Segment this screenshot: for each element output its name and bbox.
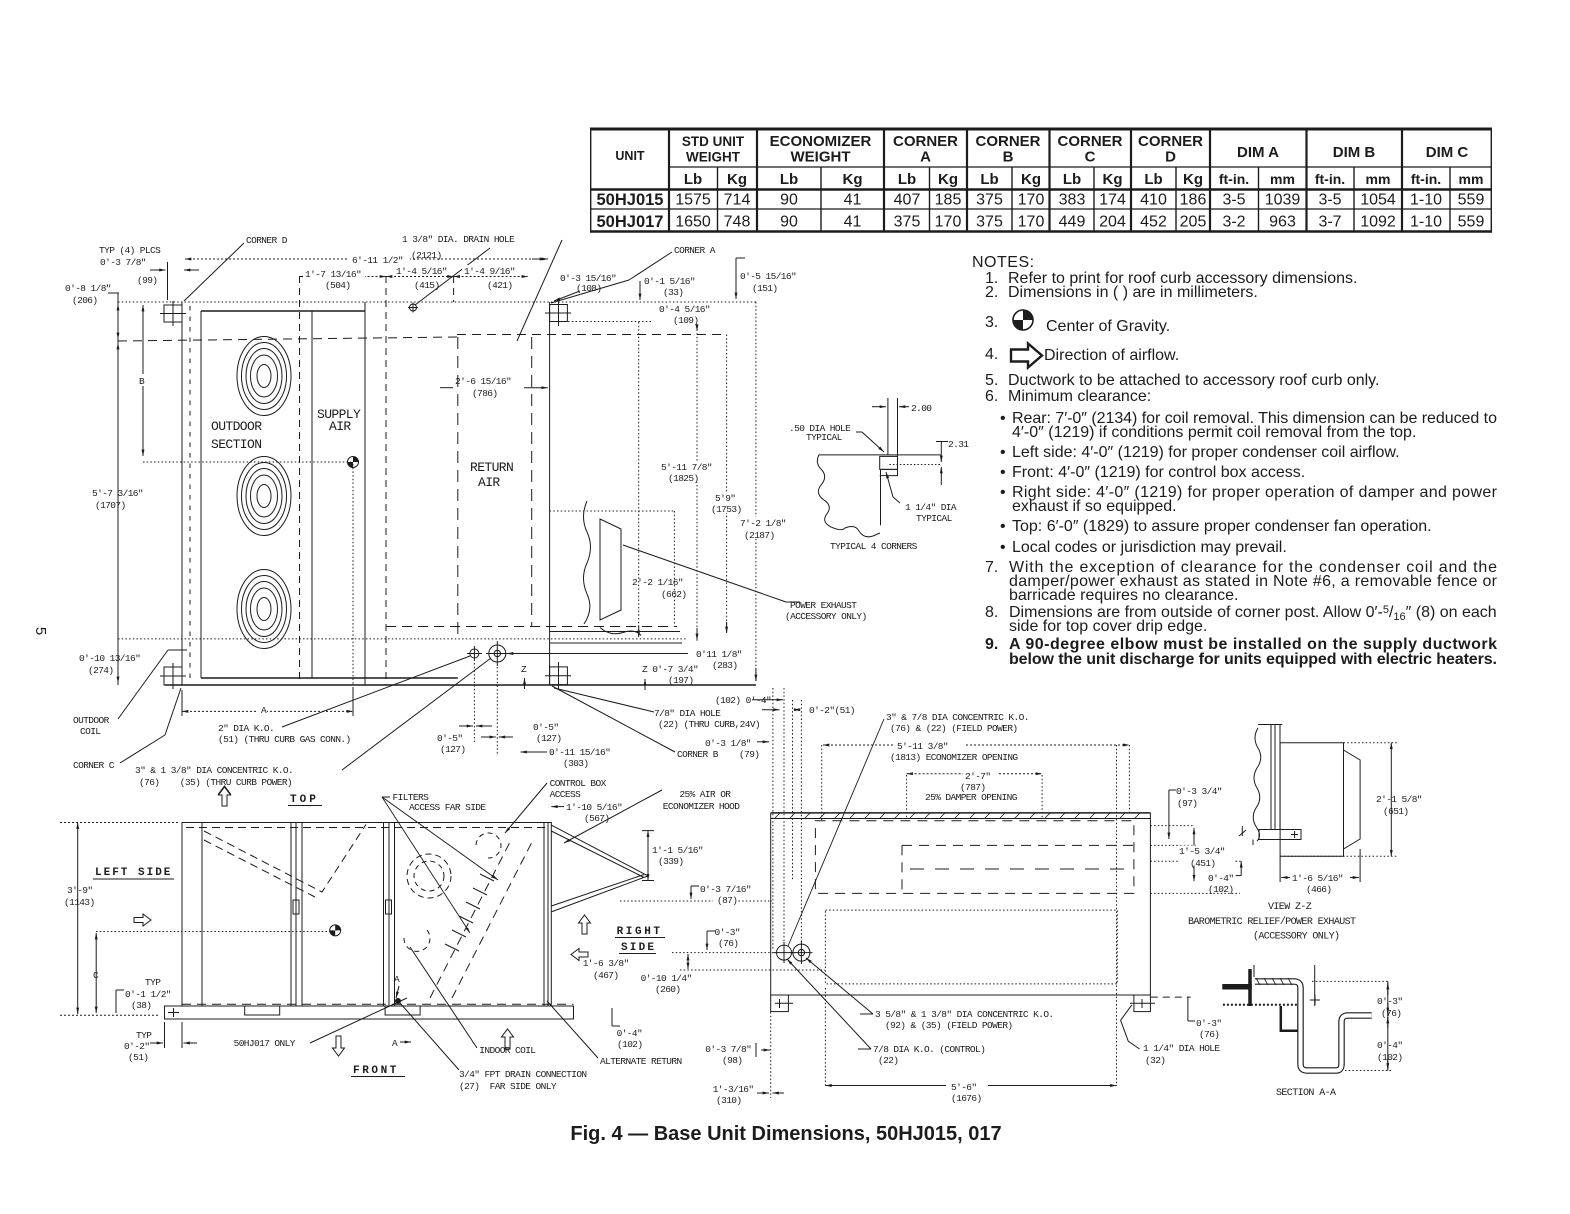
svg-text:0'-1 1/2": 0'-1 1/2": [125, 989, 171, 1000]
svg-text:(22) (THRU CURB,24V): (22) (THRU CURB,24V): [658, 719, 760, 730]
svg-text:ACCESS: ACCESS: [550, 789, 582, 800]
svg-text:CORNER: CORNER: [1138, 133, 1203, 150]
svg-text:375: 375: [976, 192, 1003, 209]
svg-text:2'-2 1/16": 2'-2 1/16": [632, 577, 683, 588]
svg-text:205: 205: [1180, 214, 1207, 231]
svg-text:2" DIA K.O.: 2" DIA K.O.: [218, 723, 274, 734]
svg-text:0'-3 7/16": 0'-3 7/16": [700, 884, 751, 895]
svg-text:963: 963: [1269, 214, 1296, 231]
svg-text:(303): (303): [563, 758, 589, 769]
svg-text:DIM B: DIM B: [1333, 144, 1376, 161]
svg-text:(ACCESSORY ONLY): (ACCESSORY ONLY): [1253, 931, 1339, 943]
svg-text:(1813) ECONOMIZER OPENING: (1813) ECONOMIZER OPENING: [890, 752, 1018, 763]
svg-text:(466): (466): [1306, 884, 1332, 895]
svg-text:SECTION: SECTION: [211, 437, 261, 452]
svg-text:BAROMETRIC RELIEF/POWER EXHAUS: BAROMETRIC RELIEF/POWER EXHAUST: [1188, 916, 1356, 928]
svg-text:Fig. 4 — Base Unit Dimensions,: Fig. 4 — Base Unit Dimensions, 50HJ015, …: [570, 1123, 1001, 1145]
svg-text:(76) & (22) (FIELD POWER): (76) & (22) (FIELD POWER): [890, 723, 1018, 734]
svg-text:(662): (662): [661, 589, 687, 600]
svg-text:1'-4 9/16": 1'-4 9/16": [464, 266, 515, 277]
svg-text:3-2: 3-2: [1222, 214, 1245, 231]
svg-text:0'-4": 0'-4": [1377, 1040, 1403, 1051]
svg-text:CORNER C: CORNER C: [73, 760, 115, 771]
svg-text:(102): (102): [1208, 884, 1234, 895]
svg-text:0'-3 7/8": 0'-3 7/8": [705, 1044, 751, 1055]
svg-text:(99): (99): [137, 275, 157, 286]
svg-text:ECONOMIZER HOOD: ECONOMIZER HOOD: [663, 801, 740, 812]
svg-text:(127): (127): [536, 733, 562, 744]
svg-text:CORNER A: CORNER A: [674, 245, 716, 256]
svg-text:(97): (97): [1177, 798, 1197, 809]
svg-text:STD UNIT: STD UNIT: [682, 134, 745, 149]
svg-text:•: •: [1000, 518, 1006, 535]
svg-text:(651): (651): [1383, 806, 1409, 817]
svg-text:5: 5: [32, 627, 49, 635]
svg-text:(51) (THRU CURB GAS CONN.): (51) (THRU CURB GAS CONN.): [218, 734, 351, 745]
svg-text:3 5/8" & 1 3/8" DIA CONCENTRIC: 3 5/8" & 1 3/8" DIA CONCENTRIC K.O.: [875, 1009, 1054, 1020]
svg-text:2'-7": 2'-7": [965, 771, 991, 782]
svg-text:0'-5": 0'-5": [437, 733, 463, 744]
svg-text:170: 170: [935, 214, 962, 231]
svg-text:2.: 2.: [985, 284, 998, 301]
svg-text:407: 407: [894, 192, 921, 209]
svg-text:3/4" FPT DRAIN CONNECTION: 3/4" FPT DRAIN CONNECTION: [459, 1069, 587, 1080]
svg-text:(51): (51): [128, 1052, 148, 1063]
svg-text:5'-7 3/16": 5'-7 3/16": [92, 488, 143, 499]
svg-text:3-7: 3-7: [1318, 214, 1341, 231]
svg-text:Kg: Kg: [1021, 171, 1041, 188]
svg-text:DIM A: DIM A: [1237, 144, 1279, 161]
svg-text:(786): (786): [472, 388, 498, 399]
svg-text:(32): (32): [1145, 1055, 1165, 1066]
svg-text:mm: mm: [1459, 171, 1484, 187]
svg-text:D: D: [1165, 149, 1176, 166]
svg-text:AIR: AIR: [478, 475, 500, 490]
svg-text:ft-in.: ft-in.: [1219, 171, 1249, 187]
svg-text:(87): (87): [717, 895, 737, 906]
svg-text:AIR: AIR: [329, 419, 351, 434]
svg-text:50HJ017 ONLY: 50HJ017 ONLY: [234, 1038, 296, 1049]
svg-text:Lb: Lb: [980, 171, 998, 188]
svg-text:(127): (127): [440, 744, 466, 755]
svg-text:side for top cover drip edge.: side for top cover drip edge.: [1009, 618, 1207, 635]
svg-text:0'-2"(51): 0'-2"(51): [809, 705, 855, 716]
svg-text:CONTROL BOX: CONTROL BOX: [550, 778, 607, 789]
svg-text:(467): (467): [593, 970, 619, 981]
svg-text:Dimensions in ( ) are in milli: Dimensions in ( ) are in millimeters.: [1008, 284, 1258, 301]
svg-text:(102): (102): [617, 1039, 643, 1050]
svg-text:90: 90: [780, 214, 798, 231]
svg-text:OUTDOOR: OUTDOOR: [73, 715, 110, 726]
svg-text:(98): (98): [722, 1055, 742, 1066]
svg-text:(567): (567): [584, 813, 610, 824]
svg-text:COIL: COIL: [80, 726, 101, 737]
svg-text:204: 204: [1099, 214, 1126, 231]
svg-text:Kg: Kg: [727, 171, 747, 188]
svg-text:170: 170: [1018, 214, 1045, 231]
svg-text:5'9": 5'9": [715, 493, 735, 504]
svg-text:•: •: [1000, 464, 1006, 481]
svg-text:(197): (197): [668, 675, 694, 686]
svg-text:0'-4 5/16": 0'-4 5/16": [659, 304, 710, 315]
svg-text:1 1/4" DIA: 1 1/4" DIA: [905, 502, 957, 513]
svg-text:1092: 1092: [1360, 214, 1396, 231]
svg-text:(421): (421): [487, 280, 513, 291]
svg-text:0'-4": 0'-4": [617, 1028, 643, 1039]
svg-text:559: 559: [1458, 214, 1485, 231]
svg-text:Local codes or jurisdiction ma: Local codes or jurisdiction may prevail.: [1012, 539, 1287, 556]
svg-text:50HJ015: 50HJ015: [597, 191, 664, 209]
svg-text:(1753): (1753): [711, 504, 742, 515]
svg-text:UNIT: UNIT: [615, 149, 645, 163]
svg-text:C: C: [1085, 149, 1096, 166]
svg-text:7.: 7.: [985, 559, 998, 576]
svg-text:(76) (35) (THRU CURB POWER): (76) (35) (THRU CURB POWER): [139, 777, 292, 788]
svg-text:(22): (22): [878, 1055, 898, 1066]
svg-text:TOP: TOP: [290, 794, 319, 806]
svg-text:9.: 9.: [985, 636, 998, 653]
svg-text:375: 375: [894, 214, 921, 231]
svg-text:•: •: [1000, 444, 1006, 461]
svg-text:VIEW Z-Z: VIEW Z-Z: [1268, 902, 1312, 913]
svg-text:FRONT: FRONT: [353, 1065, 399, 1077]
svg-text:B: B: [1003, 149, 1014, 166]
svg-text:(79): (79): [739, 749, 759, 760]
svg-text:4.: 4.: [985, 346, 998, 363]
svg-text:410: 410: [1140, 192, 1167, 209]
svg-text:POWER EXHAUST: POWER EXHAUST: [790, 600, 857, 611]
svg-text:(109): (109): [673, 315, 699, 326]
svg-text:ECONOMIZER: ECONOMIZER: [770, 133, 872, 150]
svg-text:174: 174: [1099, 192, 1126, 209]
svg-text:(206): (206): [72, 295, 98, 306]
svg-text:6'-11 1/2": 6'-11 1/2": [352, 255, 403, 266]
svg-text:WEIGHT: WEIGHT: [791, 149, 851, 166]
svg-text:Z 0'-7 3/4": Z 0'-7 3/4": [642, 664, 698, 675]
svg-text:0'-11 15/16": 0'-11 15/16": [549, 747, 610, 758]
svg-text:0'-5": 0'-5": [533, 722, 559, 733]
svg-text:0'-10 1/4": 0'-10 1/4": [641, 973, 692, 984]
svg-text:CORNER D: CORNER D: [246, 235, 288, 246]
svg-text:7/8" DIA HOLE: 7/8" DIA HOLE: [654, 708, 721, 719]
svg-text:Lb: Lb: [898, 171, 916, 188]
svg-text:•: •: [1000, 539, 1006, 556]
svg-text:6.: 6.: [985, 388, 998, 405]
svg-text:0'-5 15/16": 0'-5 15/16": [740, 271, 796, 282]
svg-text:2.31: 2.31: [948, 439, 969, 450]
svg-text:0'-3": 0'-3": [1377, 996, 1403, 1007]
svg-text:A: A: [261, 705, 267, 716]
svg-text:5'-11 3/8": 5'-11 3/8": [897, 741, 948, 752]
svg-text:TYP: TYP: [136, 1030, 152, 1041]
svg-text:90: 90: [780, 192, 798, 209]
svg-text:A: A: [392, 1038, 398, 1049]
svg-text:(ACCESSORY ONLY): (ACCESSORY ONLY): [785, 611, 867, 622]
svg-text:0'-8 1/8": 0'-8 1/8": [65, 283, 111, 294]
svg-text:Lb: Lb: [1063, 171, 1081, 188]
svg-text:A: A: [920, 149, 931, 166]
svg-text:25% AIR OR: 25% AIR OR: [679, 789, 731, 800]
svg-text:2'-1 5/8": 2'-1 5/8": [1376, 794, 1422, 805]
svg-text:Lb: Lb: [684, 171, 702, 188]
svg-text:1'-6 3/8": 1'-6 3/8": [583, 958, 629, 969]
svg-text:Center of Gravity.: Center of Gravity.: [1046, 318, 1170, 335]
svg-text:0'-3 1/8": 0'-3 1/8": [705, 738, 751, 749]
svg-text:0'-3 7/8": 0'-3 7/8": [100, 257, 146, 268]
svg-text:ALTERNATE RETURN: ALTERNATE RETURN: [600, 1056, 682, 1067]
svg-text:A: A: [394, 974, 400, 985]
svg-text:ft-in.: ft-in.: [1315, 171, 1345, 187]
svg-text:CORNER: CORNER: [893, 133, 958, 150]
svg-text:(1143): (1143): [64, 897, 95, 908]
svg-text:1575: 1575: [675, 192, 711, 209]
svg-text:0'-3": 0'-3": [1196, 1018, 1222, 1029]
svg-text:0'-10 13/16": 0'-10 13/16": [79, 653, 140, 664]
svg-text:452: 452: [1140, 214, 1167, 231]
svg-text:(274): (274): [88, 665, 114, 676]
svg-text:1650: 1650: [675, 214, 711, 231]
svg-text:barricade requires no clearanc: barricade requires no clearance.: [1009, 587, 1238, 604]
svg-text:(283): (283): [712, 660, 738, 671]
svg-text:exhaust if so equipped.: exhaust if so equipped.: [1012, 498, 1177, 515]
svg-text:Top: 6′-0″ (1829) to assure pr: Top: 6′-0″ (1829) to assure proper conde…: [1012, 518, 1432, 535]
svg-text:SECTION A-A: SECTION A-A: [1276, 1088, 1336, 1099]
svg-text:(1676): (1676): [951, 1093, 982, 1104]
svg-text:1-10: 1-10: [1410, 214, 1442, 231]
svg-text:SIDE: SIDE: [621, 942, 656, 954]
svg-text:(76): (76): [718, 938, 738, 949]
svg-text:50HJ017: 50HJ017: [597, 213, 664, 231]
svg-text:41: 41: [844, 192, 862, 209]
svg-text:383: 383: [1059, 192, 1086, 209]
svg-text:1054: 1054: [1360, 192, 1396, 209]
svg-text:3" & 7/8 DIA CONCENTRIC K.O.: 3" & 7/8 DIA CONCENTRIC K.O.: [886, 712, 1029, 723]
svg-text:Kg: Kg: [1103, 171, 1123, 188]
svg-text:•: •: [1000, 410, 1006, 427]
svg-text:(76): (76): [1381, 1008, 1401, 1019]
svg-text:NOTES:: NOTES:: [972, 254, 1035, 271]
svg-text:WEIGHT: WEIGHT: [686, 150, 741, 165]
svg-text:TYPICAL: TYPICAL: [806, 432, 843, 443]
svg-text:Front: 4′-0″ (1219) for contro: Front: 4′-0″ (1219) for control box acce…: [1012, 464, 1305, 481]
svg-text:714: 714: [724, 192, 751, 209]
svg-text:1'-1 5/16": 1'-1 5/16": [652, 845, 703, 856]
svg-text:(504): (504): [325, 280, 351, 291]
svg-text:Z: Z: [521, 664, 527, 675]
svg-text:mm: mm: [1270, 171, 1295, 187]
svg-text:5'-11 7/8": 5'-11 7/8": [661, 462, 712, 473]
svg-text:Lb: Lb: [1144, 171, 1162, 188]
svg-text:5.: 5.: [985, 372, 998, 389]
svg-text:RIGHT: RIGHT: [617, 926, 663, 938]
svg-text:41: 41: [844, 214, 862, 231]
svg-text:1'-10 5/16": 1'-10 5/16": [566, 802, 622, 813]
svg-text:Kg: Kg: [843, 171, 863, 188]
svg-text:(38): (38): [131, 1000, 151, 1011]
svg-text:170: 170: [1018, 192, 1045, 209]
svg-text:(2121): (2121): [411, 250, 442, 261]
svg-text:(260): (260): [655, 984, 681, 995]
svg-text:0'-2": 0'-2": [124, 1041, 150, 1052]
svg-text:3.: 3.: [985, 314, 998, 331]
svg-text:(310): (310): [716, 1095, 742, 1106]
svg-text:(33): (33): [663, 287, 683, 298]
svg-text:DIM C: DIM C: [1426, 144, 1469, 161]
svg-text:3'-9": 3'-9": [67, 885, 93, 896]
svg-text:5'-6": 5'-6": [951, 1082, 977, 1093]
svg-text:LEFT SIDE: LEFT SIDE: [95, 867, 172, 879]
svg-text:3" & 1 3/8" DIA CONCENTRIC K.O: 3" & 1 3/8" DIA CONCENTRIC K.O.: [135, 765, 293, 776]
svg-text:1 1/4" DIA HOLE: 1 1/4" DIA HOLE: [1143, 1043, 1220, 1054]
svg-text:4′-0″ (1219) if conditions per: 4′-0″ (1219) if conditions permit coil r…: [1012, 424, 1416, 441]
svg-text:(451): (451): [1190, 858, 1216, 869]
svg-text:3-5: 3-5: [1222, 192, 1245, 209]
svg-text:186: 186: [1180, 192, 1207, 209]
svg-text:0'-1 5/16": 0'-1 5/16": [644, 276, 695, 287]
svg-text:below the unit discharge for u: below the unit discharge for units equip…: [1009, 651, 1497, 668]
svg-text:8.: 8.: [985, 604, 998, 621]
svg-text:748: 748: [724, 214, 751, 231]
svg-text:•: •: [1000, 484, 1006, 501]
svg-text:0'-3 3/4": 0'-3 3/4": [1176, 786, 1222, 797]
svg-text:7/8 DIA K.O. (CONTROL): 7/8 DIA K.O. (CONTROL): [873, 1044, 985, 1055]
svg-text:7'-2 1/8": 7'-2 1/8": [740, 518, 786, 529]
svg-text:2'-6 15/16": 2'-6 15/16": [455, 376, 511, 387]
svg-text:Left side: 4′-0″ (1219) for pr: Left side: 4′-0″ (1219) for proper conde…: [1012, 444, 1400, 461]
svg-text:(1707): (1707): [95, 500, 126, 511]
svg-text:RETURN: RETURN: [470, 460, 513, 475]
svg-text:449: 449: [1059, 214, 1086, 231]
svg-text:(2187): (2187): [744, 530, 775, 541]
svg-text:1'-4 5/16": 1'-4 5/16": [396, 266, 447, 277]
svg-text:C: C: [93, 970, 99, 981]
svg-text:ft-in.: ft-in.: [1411, 171, 1441, 187]
svg-text:25% DAMPER OPENING: 25% DAMPER OPENING: [925, 792, 1018, 803]
svg-text:mm: mm: [1366, 171, 1391, 187]
svg-text:0'-4": 0'-4": [1208, 873, 1234, 884]
svg-text:CORNER B: CORNER B: [677, 749, 719, 760]
svg-text:TYP (4) PLCS: TYP (4) PLCS: [99, 245, 161, 256]
svg-text:Kg: Kg: [938, 171, 958, 188]
svg-text:ACCESS FAR SIDE: ACCESS FAR SIDE: [409, 802, 486, 813]
svg-text:559: 559: [1458, 192, 1485, 209]
svg-text:1-10: 1-10: [1410, 192, 1442, 209]
svg-text:185: 185: [935, 192, 962, 209]
svg-text:(108): (108): [576, 283, 602, 294]
svg-text:(1825): (1825): [668, 473, 699, 484]
svg-text:INDOOR COIL: INDOOR COIL: [479, 1045, 536, 1056]
svg-text:(415): (415): [414, 280, 440, 291]
svg-text:Lb: Lb: [780, 171, 798, 188]
svg-text:Minimum clearance:: Minimum clearance:: [1008, 388, 1151, 405]
svg-text:375: 375: [976, 214, 1003, 231]
svg-text:CORNER: CORNER: [975, 133, 1040, 150]
svg-text:Ductwork to be attached to acc: Ductwork to be attached to accessory roo…: [1008, 372, 1379, 389]
svg-text:3-5: 3-5: [1318, 192, 1341, 209]
svg-text:B: B: [139, 376, 145, 387]
svg-text:1039: 1039: [1265, 192, 1301, 209]
svg-text:TYPICAL 4 CORNERS: TYPICAL 4 CORNERS: [830, 541, 918, 552]
svg-text:1 3/8" DIA. DRAIN HOLE: 1 3/8" DIA. DRAIN HOLE: [402, 234, 515, 245]
svg-text:OUTDOOR: OUTDOOR: [211, 419, 262, 434]
svg-text:TYP: TYP: [145, 977, 161, 988]
svg-text:TYPICAL: TYPICAL: [916, 513, 953, 524]
svg-text:(151): (151): [752, 283, 778, 294]
svg-text:(339): (339): [658, 856, 684, 867]
svg-text:(27) FAR SIDE ONLY: (27) FAR SIDE ONLY: [459, 1081, 557, 1092]
svg-text:(102) 0'-4": (102) 0'-4": [715, 695, 771, 706]
svg-text:CORNER: CORNER: [1057, 133, 1122, 150]
svg-text:1'-7 13/16": 1'-7 13/16": [305, 269, 361, 280]
svg-text:0'11 1/8": 0'11 1/8": [696, 649, 742, 660]
svg-text:1'-6 5/16": 1'-6 5/16": [1292, 873, 1343, 884]
svg-text:(102): (102): [1377, 1052, 1403, 1063]
svg-text:1'-3/16": 1'-3/16": [713, 1084, 754, 1095]
svg-text:Kg: Kg: [1183, 171, 1203, 188]
svg-text:Direction of airflow.: Direction of airflow.: [1044, 347, 1179, 364]
svg-text:(92) & (35) (FIELD POWER): (92) & (35) (FIELD POWER): [885, 1020, 1013, 1031]
svg-text:0'-3": 0'-3": [715, 927, 741, 938]
svg-text:2.00: 2.00: [911, 403, 932, 414]
svg-text:(76): (76): [1199, 1029, 1219, 1040]
svg-text:1'-5 3/4": 1'-5 3/4": [1179, 846, 1225, 857]
